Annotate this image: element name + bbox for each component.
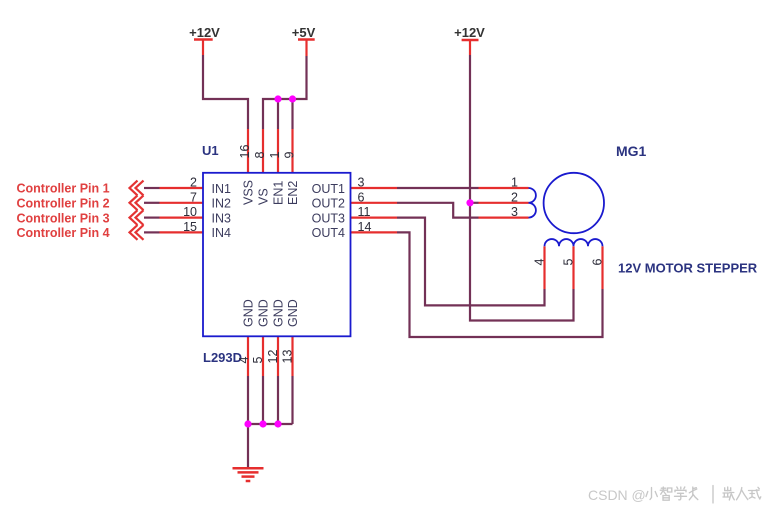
svg-text:+5V: +5V — [292, 25, 316, 40]
svg-text:4: 4 — [533, 259, 547, 266]
svg-text:GND: GND — [272, 299, 286, 327]
svg-text:1: 1 — [268, 152, 282, 159]
svg-text:GND: GND — [242, 299, 256, 327]
svg-text:IN3: IN3 — [212, 211, 232, 225]
svg-text:Controller Pin 2: Controller Pin 2 — [17, 197, 110, 211]
svg-text:2: 2 — [511, 190, 518, 204]
svg-text:OUT3: OUT3 — [312, 211, 345, 225]
svg-text:14: 14 — [358, 220, 372, 234]
svg-text:8: 8 — [253, 152, 267, 159]
svg-text:IN1: IN1 — [212, 182, 232, 196]
svg-text:7: 7 — [190, 190, 197, 204]
svg-text:+12V: +12V — [454, 25, 485, 40]
svg-text:5: 5 — [562, 259, 576, 266]
svg-text:IN2: IN2 — [212, 197, 232, 211]
svg-text:3: 3 — [511, 205, 518, 219]
svg-text:Controller Pin 3: Controller Pin 3 — [17, 211, 110, 225]
svg-text:EN1: EN1 — [272, 181, 286, 205]
svg-text:U1: U1 — [202, 143, 219, 158]
svg-text:IN4: IN4 — [212, 226, 232, 240]
svg-text:VS: VS — [257, 188, 271, 205]
svg-text:16: 16 — [238, 145, 252, 159]
svg-text:MG1: MG1 — [616, 143, 647, 159]
svg-text:3: 3 — [358, 176, 365, 190]
svg-text:1: 1 — [511, 176, 518, 190]
svg-text:GND: GND — [257, 299, 271, 327]
svg-text:VSS: VSS — [242, 180, 256, 205]
svg-text:12: 12 — [266, 350, 280, 364]
svg-text:13: 13 — [281, 350, 295, 364]
svg-text:OUT1: OUT1 — [312, 182, 345, 196]
svg-text:Controller Pin 4: Controller Pin 4 — [17, 226, 110, 240]
svg-text:6: 6 — [358, 190, 365, 204]
svg-text:6: 6 — [591, 259, 605, 266]
svg-text:2: 2 — [190, 176, 197, 190]
svg-text:5: 5 — [251, 357, 265, 364]
svg-text:9: 9 — [283, 152, 297, 159]
svg-text:10: 10 — [183, 205, 197, 219]
svg-text:GND: GND — [286, 299, 300, 327]
svg-text:Controller Pin 1: Controller Pin 1 — [17, 182, 110, 196]
svg-text:OUT4: OUT4 — [312, 226, 345, 240]
svg-text:11: 11 — [358, 205, 371, 219]
svg-text:+12V: +12V — [189, 25, 220, 40]
svg-text:15: 15 — [183, 220, 197, 234]
svg-text:CSDN @: CSDN @ — [588, 487, 646, 503]
svg-text:4: 4 — [237, 357, 251, 364]
svg-text:OUT2: OUT2 — [312, 197, 345, 211]
svg-text:EN2: EN2 — [286, 181, 300, 205]
svg-text:12V MOTOR STEPPER: 12V MOTOR STEPPER — [618, 261, 758, 276]
